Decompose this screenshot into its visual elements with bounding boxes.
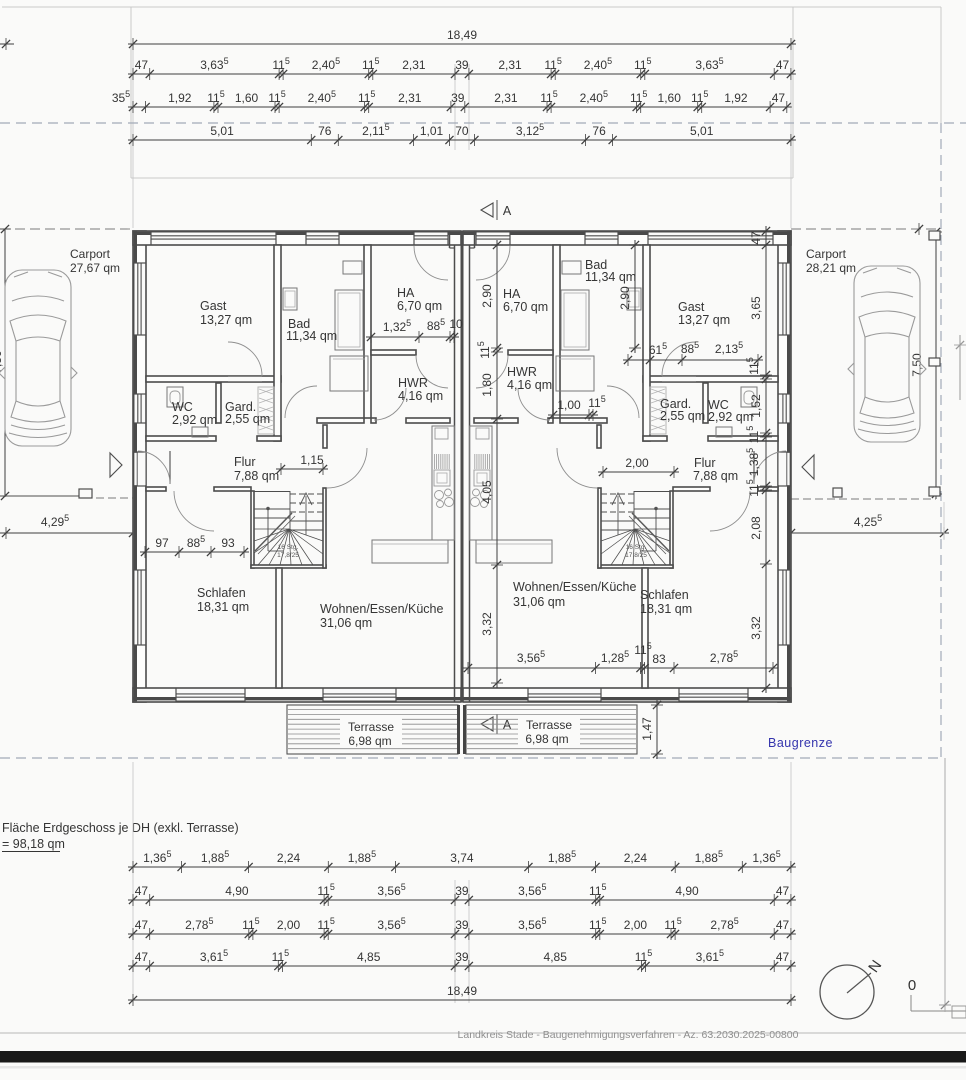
dim 1,47 terrace <box>656 700 658 759</box>
entry door leaf+arc <box>169 451 171 484</box>
svg-text:2,31: 2,31 <box>494 91 518 105</box>
wall Bad/HA vertical <box>553 245 560 418</box>
wall HWR bottom <box>474 418 518 423</box>
hob <box>481 491 490 500</box>
exterior wall left <box>133 231 146 702</box>
wall WC bottom <box>708 436 778 441</box>
extension left building corner <box>132 502 134 540</box>
exterior wall left <box>778 231 791 702</box>
right edge cut dim marks <box>959 335 961 400</box>
Bad cistern <box>343 261 362 274</box>
svg-text:47: 47 <box>749 231 763 245</box>
svg-text:13,27 qm: 13,27 qm <box>200 313 252 327</box>
svg-text:1,47: 1,47 <box>640 717 654 741</box>
black bar <box>0 1051 966 1063</box>
svg-text:2,92 qm: 2,92 qm <box>172 413 217 427</box>
wall Bad bottom <box>317 418 364 423</box>
window Gast top <box>151 232 277 244</box>
window Bad top <box>585 232 619 244</box>
svg-text:2,00: 2,00 <box>625 456 649 470</box>
exterior wall top <box>463 231 791 245</box>
outer face band bottom <box>463 697 790 700</box>
terrace left outline <box>287 705 458 754</box>
svg-text:2,31: 2,31 <box>398 91 422 105</box>
shower <box>561 290 589 350</box>
wall HA bottom <box>371 350 416 355</box>
stair treads left flight <box>634 508 670 510</box>
dim row 2 <box>128 73 796 75</box>
svg-text:Baugrenze: Baugrenze <box>768 736 833 750</box>
svg-text:2,08: 2,08 <box>749 516 763 540</box>
svg-text:1,01: 1,01 <box>420 124 444 138</box>
window WC left <box>134 394 145 424</box>
svg-text:47: 47 <box>776 884 790 898</box>
door arc Wohnen <box>557 448 597 488</box>
left carport bottom line <box>0 495 92 497</box>
svg-text:11,34 qm: 11,34 qm <box>585 270 636 284</box>
dishwasher <box>434 454 436 469</box>
wall Gard bottom <box>643 436 667 441</box>
left carport dashed top edge <box>0 228 133 230</box>
shower <box>335 290 363 350</box>
terrace door bottom <box>528 689 602 701</box>
car in left carport <box>0 270 77 446</box>
wardrobe hatch <box>650 387 666 434</box>
Bad cistern <box>562 261 581 274</box>
dim 2,00 right <box>598 471 679 473</box>
dim 97 / 88-5 / 93 left <box>140 551 249 553</box>
svg-text:27,67 qm: 27,67 qm <box>70 261 120 275</box>
svg-text:16 Stg.: 16 Stg. <box>278 544 299 551</box>
svg-text:16 Stg.: 16 Stg. <box>626 544 647 551</box>
dim 4,25-5 right <box>786 532 949 534</box>
svg-text:6,98 qm: 6,98 qm <box>348 734 391 748</box>
stair cut line <box>632 513 669 551</box>
svg-text:2,31: 2,31 <box>402 58 426 72</box>
window Bad top <box>306 232 340 244</box>
kitchen sink <box>476 428 489 439</box>
extension right x944 <box>943 502 945 540</box>
dim row 3 <box>128 106 792 108</box>
wall WC/Gard divider <box>216 383 221 423</box>
svg-text:1,80: 1,80 <box>480 373 494 397</box>
svg-text:1,52: 1,52 <box>749 394 763 418</box>
svg-text:6,98 qm: 6,98 qm <box>525 732 568 746</box>
bathtub <box>330 356 368 391</box>
svg-text:83: 83 <box>652 652 666 666</box>
svg-text:18,31 qm: 18,31 qm <box>640 602 692 616</box>
svg-text:18,49: 18,49 <box>447 28 477 42</box>
bottom extension verticals <box>132 762 134 1003</box>
dim 1,00 / 11-5 right <box>548 414 598 416</box>
terrace right outline <box>466 705 637 754</box>
svg-text:2,00: 2,00 <box>277 918 301 932</box>
svg-text:Wohnen/Essen/Küche: Wohnen/Essen/Küche <box>513 580 637 594</box>
stair winder fan <box>254 528 289 530</box>
footer line <box>0 1032 966 1034</box>
svg-text:3,65: 3,65 <box>749 296 763 320</box>
door arc Gast <box>228 342 262 376</box>
stair box top edge <box>254 491 290 493</box>
svg-text:2,90: 2,90 <box>618 286 632 310</box>
exterior wall bottom <box>133 688 461 702</box>
door arc Wohnen <box>327 448 367 488</box>
svg-text:HWR: HWR <box>507 365 537 379</box>
Baugrenze dashed top <box>0 122 966 124</box>
bathtub <box>556 356 594 391</box>
svg-text:18,49: 18,49 <box>447 984 477 998</box>
terrace label right <box>518 715 580 745</box>
door opening HA top <box>476 232 511 244</box>
svg-text:Flur: Flur <box>694 456 716 470</box>
svg-text:70: 70 <box>455 124 469 138</box>
terrace door bottom <box>323 689 397 701</box>
frame line top <box>2 6 941 8</box>
svg-text:1,92: 1,92 <box>168 91 192 105</box>
bottom dim row 3 <box>128 933 796 935</box>
svg-text:39: 39 <box>455 884 469 898</box>
svg-text:HA: HA <box>503 287 521 301</box>
section marker A top <box>481 203 493 217</box>
svg-text:5,01: 5,01 <box>690 124 714 138</box>
dim 61-5 / 88-5 / 2,13-5 right <box>623 359 763 361</box>
svg-text:47: 47 <box>135 950 149 964</box>
entry arrow right unit <box>802 455 814 479</box>
svg-text:1,00: 1,00 <box>557 398 581 412</box>
door arc Bad <box>607 386 639 418</box>
Bad basin <box>627 288 641 310</box>
svg-text:5,01: 5,01 <box>210 124 234 138</box>
svg-text:47: 47 <box>135 918 149 932</box>
svg-text:1,92: 1,92 <box>724 91 748 105</box>
left unit geometry <box>133 231 461 702</box>
outer face band left <box>134 232 137 702</box>
wall WC/Gard divider <box>703 383 708 423</box>
stair stringer line <box>633 491 635 529</box>
svg-text:47: 47 <box>776 58 790 72</box>
car in right carport <box>848 266 926 442</box>
svg-text:7,88 qm: 7,88 qm <box>234 469 279 483</box>
svg-text:HA: HA <box>397 286 415 300</box>
dim 1,15 left <box>276 468 328 470</box>
entry arrow left unit <box>110 453 122 477</box>
svg-text:Gast: Gast <box>200 299 227 313</box>
vertical chain right x497 <box>496 240 498 688</box>
wall Bad bottom <box>560 418 607 423</box>
party wall leaf <box>454 245 456 702</box>
svg-text:Fläche Erdgeschoss je DH (exkl: Fläche Erdgeschoss je DH (exkl. Terrasse… <box>2 821 239 835</box>
outer face band top <box>134 232 461 235</box>
window Schlafen left <box>134 570 145 646</box>
opening Gast door <box>228 377 262 381</box>
wardrobe hatch <box>258 387 274 434</box>
vertical chain right x635 2,90 <box>634 240 636 353</box>
outer face band top <box>463 232 790 235</box>
WC basin <box>192 427 208 437</box>
wall Gard bottom <box>257 436 281 441</box>
svg-text:4,16 qm: 4,16 qm <box>507 378 552 392</box>
svg-text:2,92 qm: 2,92 qm <box>708 410 753 424</box>
svg-text:2,24: 2,24 <box>624 851 648 865</box>
svg-text:39: 39 <box>451 91 465 105</box>
opening Gast door <box>662 377 696 381</box>
stair winder fan <box>635 528 670 530</box>
party wall leaf <box>469 245 471 702</box>
dishwasher <box>489 454 491 469</box>
dim row 4 <box>128 139 796 141</box>
svg-text:47: 47 <box>776 950 790 964</box>
exterior wall top <box>133 231 461 245</box>
WC toilet <box>741 387 757 407</box>
svg-text:Landkreis Stade - Baugenehmigu: Landkreis Stade - Baugenehmigungsverfahr… <box>458 1029 799 1041</box>
wall Schlafen/Wohnen <box>642 568 648 688</box>
wall Flur/Schlafen <box>758 487 778 491</box>
svg-text:39: 39 <box>455 58 469 72</box>
right carport posts <box>929 231 940 240</box>
vertical chain right x766 <box>765 226 767 693</box>
door arc HA entry <box>476 246 510 280</box>
svg-text:3,32: 3,32 <box>749 616 763 640</box>
extension line left x133 <box>132 44 134 228</box>
corridor wall <box>323 425 327 448</box>
svg-text:39: 39 <box>455 918 469 932</box>
svg-text:4,90: 4,90 <box>675 884 699 898</box>
left carport post <box>79 489 92 498</box>
svg-text:Schlafen: Schlafen <box>197 586 246 600</box>
svg-text:47: 47 <box>135 884 149 898</box>
right boundary upper light line <box>940 7 942 123</box>
bottom dim row 4 <box>128 965 796 967</box>
bottom dim row 1 <box>128 866 796 868</box>
svg-text:17,8/25: 17,8/25 <box>277 552 299 559</box>
right unit geometry (mirrored) <box>463 231 791 702</box>
kitchen sink <box>435 428 448 439</box>
door arc HWR from Flur <box>374 388 406 420</box>
svg-text:Carport: Carport <box>70 247 111 261</box>
entry door opening <box>779 453 791 485</box>
svg-text:WC: WC <box>172 400 193 414</box>
svg-text:39: 39 <box>455 950 469 964</box>
wall HWR bottom <box>406 418 450 423</box>
left carport 7,50 dim line <box>4 229 6 497</box>
outer face band left <box>787 232 790 702</box>
svg-text:6,70 qm: 6,70 qm <box>503 300 548 314</box>
svg-text:2,31: 2,31 <box>498 58 522 72</box>
Baugrenze dashed right vertical <box>940 123 942 758</box>
door arc Gast <box>662 342 696 376</box>
door arc Bad <box>285 386 317 418</box>
frame right <box>792 7 794 178</box>
stair treads upper flight <box>601 493 634 495</box>
window Schlafen bottom <box>679 689 749 701</box>
svg-text:1,60: 1,60 <box>235 91 259 105</box>
svg-text:Gast: Gast <box>678 300 705 314</box>
svg-text:47: 47 <box>776 918 790 932</box>
wall Schlafen/Wohnen <box>276 568 282 688</box>
WC toilet <box>167 387 183 407</box>
stair up arrow <box>305 496 307 535</box>
bottom dim total <box>128 999 796 1001</box>
wall Gast/WC <box>643 376 778 382</box>
terrace hatch <box>288 710 636 749</box>
door arc HWR from Flur <box>518 388 550 420</box>
door arc Schlafen <box>710 491 750 531</box>
stair box bottom wall <box>251 565 326 568</box>
svg-text:31,06 qm: 31,06 qm <box>320 616 372 630</box>
svg-text:13,27 qm: 13,27 qm <box>678 313 730 327</box>
stair box left wall <box>251 491 254 568</box>
right carport dashed top edge <box>791 228 936 230</box>
svg-text:3,32: 3,32 <box>480 612 494 636</box>
bottom dim row 2 <box>128 899 796 901</box>
dim 4,29-5 left <box>0 532 138 534</box>
svg-text:93: 93 <box>221 536 235 550</box>
svg-text:47: 47 <box>772 91 786 105</box>
svg-text:Carport: Carport <box>806 247 847 261</box>
kitchen counter <box>432 426 455 540</box>
window Gast left <box>134 263 145 336</box>
window WC left <box>779 394 790 424</box>
svg-text:A: A <box>503 718 512 732</box>
terrace divider (party wall) <box>457 705 460 754</box>
stair box bottom wall <box>598 565 673 568</box>
svg-text:4,90: 4,90 <box>225 884 249 898</box>
svg-text:1,60: 1,60 <box>658 91 682 105</box>
svg-text:76: 76 <box>318 124 332 138</box>
svg-text:Schlafen: Schlafen <box>640 588 689 602</box>
svg-text:4,85: 4,85 <box>357 950 381 964</box>
hob <box>435 491 444 500</box>
svg-text:31,06 qm: 31,06 qm <box>513 595 565 609</box>
svg-text:6,70 qm: 6,70 qm <box>397 299 442 313</box>
svg-text:18,31 qm: 18,31 qm <box>197 600 249 614</box>
svg-text:3,74: 3,74 <box>450 851 474 865</box>
Baugrenze dashed bottom <box>0 757 941 759</box>
svg-text:76: 76 <box>592 124 606 138</box>
door opening HA top <box>414 232 449 244</box>
dim 1,32-5 / 88-5 / 10 left <box>366 336 459 338</box>
stair stringer line <box>289 491 291 529</box>
svg-text:Flur: Flur <box>234 455 256 469</box>
wall Bad/HA vertical <box>364 245 371 418</box>
terrace label left <box>340 717 402 747</box>
svg-text:4,16 qm: 4,16 qm <box>398 389 443 403</box>
stair box top edge <box>634 491 670 493</box>
right carport right edge / 7,50 dim <box>935 231 937 499</box>
lower counter <box>476 540 552 563</box>
svg-text:Wohnen/Essen/Küche: Wohnen/Essen/Küche <box>320 602 444 616</box>
stair up arrow <box>617 496 619 535</box>
right carport bottom dashed <box>791 498 936 500</box>
wall Gast/Bad vertical <box>274 245 281 441</box>
stair cut line <box>255 513 292 551</box>
svg-text:2,00: 2,00 <box>624 918 648 932</box>
door arc HWR from HA <box>476 355 508 388</box>
door arc Schlafen <box>174 491 214 531</box>
window Schlafen left <box>779 570 790 646</box>
cut-off tick top left <box>0 43 14 45</box>
Bad basin <box>283 288 297 310</box>
kitchen counter <box>470 426 493 540</box>
WC basin <box>716 427 732 437</box>
svg-text:4,05: 4,05 <box>480 480 494 504</box>
svg-text:97: 97 <box>155 536 169 550</box>
svg-text:11,34 qm: 11,34 qm <box>286 329 337 343</box>
svg-text:Terrasse: Terrasse <box>348 720 394 734</box>
stair handrail <box>654 507 658 511</box>
dim row total 18,49 <box>128 43 796 45</box>
compass needle <box>847 973 871 993</box>
extension lines center <box>454 64 456 150</box>
svg-text:10: 10 <box>449 317 463 331</box>
svg-text:1,15: 1,15 <box>300 453 324 467</box>
svg-text:7,88 qm: 7,88 qm <box>693 469 738 483</box>
frame bottom <box>131 177 793 179</box>
svg-text:= 98,18 qm: = 98,18 qm <box>2 837 65 851</box>
svg-text:HWR: HWR <box>398 376 428 390</box>
stair box left wall <box>670 491 673 568</box>
door arc HWR from HA <box>416 355 448 388</box>
stair handrail <box>266 507 270 511</box>
compass circle <box>820 965 874 1019</box>
svg-text:2,55 qm: 2,55 qm <box>660 409 705 423</box>
wall Flur/Schlafen <box>146 487 166 491</box>
stair treads upper flight <box>290 493 323 495</box>
window Schlafen bottom <box>176 689 246 701</box>
section marker A bottom <box>481 717 493 731</box>
svg-text:28,21 qm: 28,21 qm <box>806 261 856 275</box>
dim row 3,56-5 etc right <box>463 667 778 669</box>
svg-text:2,90: 2,90 <box>480 284 494 308</box>
entry door opening <box>134 453 146 485</box>
wall Gast/Bad vertical <box>643 245 650 441</box>
svg-text:47: 47 <box>135 58 149 72</box>
right boundary line lower <box>944 758 946 1012</box>
svg-text:2,55 qm: 2,55 qm <box>225 412 270 426</box>
exterior wall bottom <box>463 688 791 702</box>
lower counter <box>372 540 448 563</box>
svg-text:Terrasse: Terrasse <box>526 718 572 732</box>
svg-text:A: A <box>503 204 512 218</box>
corridor wall <box>597 425 601 448</box>
wall WC bottom <box>146 436 216 441</box>
svg-text:0: 0 <box>908 977 916 994</box>
oven <box>474 470 490 486</box>
window Gast top <box>648 232 774 244</box>
door arc HA entry <box>414 246 448 280</box>
oven <box>434 470 450 486</box>
stair treads left flight <box>254 508 290 510</box>
svg-text:4,85: 4,85 <box>544 950 568 964</box>
svg-text:17,8/25: 17,8/25 <box>625 552 647 559</box>
wall Gast/WC <box>146 376 281 382</box>
extension line right x791 <box>790 44 792 228</box>
svg-text:2,24: 2,24 <box>277 851 301 865</box>
outer face band bottom <box>134 697 461 700</box>
entry door leaf+arc <box>753 451 755 484</box>
frame left <box>130 7 132 178</box>
wall HA bottom <box>508 350 553 355</box>
small rect right edge <box>952 1006 966 1018</box>
window Gast left <box>779 263 790 336</box>
